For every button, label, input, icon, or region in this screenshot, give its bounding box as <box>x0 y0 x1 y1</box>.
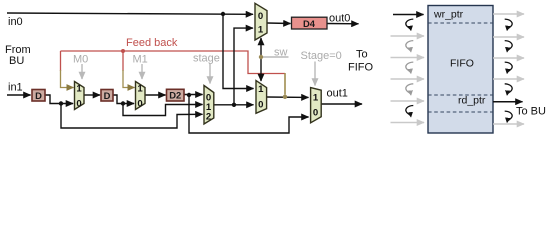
svg-text:1: 1 <box>137 84 143 95</box>
svg-text:FIFO: FIFO <box>450 58 474 70</box>
svg-text:out0: out0 <box>329 13 350 25</box>
svg-text:wr_ptr: wr_ptr <box>433 9 464 21</box>
svg-text:M0: M0 <box>73 54 88 66</box>
svg-text:BU: BU <box>9 55 24 67</box>
svg-text:To: To <box>356 49 368 61</box>
svg-text:1: 1 <box>258 25 264 36</box>
svg-text:1: 1 <box>76 84 82 95</box>
svg-text:1: 1 <box>258 84 264 95</box>
svg-text:0: 0 <box>76 99 81 110</box>
svg-text:D: D <box>35 90 42 101</box>
svg-text:To BU: To BU <box>516 106 546 118</box>
svg-text:Stage=0: Stage=0 <box>301 50 342 62</box>
svg-text:stage: stage <box>193 53 220 65</box>
svg-text:in0: in0 <box>8 16 23 28</box>
svg-text:rd_ptr: rd_ptr <box>458 95 486 107</box>
svg-text:1: 1 <box>313 93 319 104</box>
svg-text:0: 0 <box>258 11 263 22</box>
svg-text:0: 0 <box>137 99 142 110</box>
svg-text:0: 0 <box>313 108 318 119</box>
svg-text:D4: D4 <box>303 18 316 29</box>
svg-text:sw: sw <box>274 47 288 59</box>
svg-text:M1: M1 <box>133 54 148 66</box>
svg-text:0: 0 <box>258 100 263 111</box>
svg-text:D2: D2 <box>169 90 181 101</box>
svg-text:2: 2 <box>206 112 211 123</box>
svg-text:FIFO: FIFO <box>348 62 373 74</box>
svg-text:in1: in1 <box>8 82 23 94</box>
svg-text:D: D <box>104 90 111 101</box>
svg-text:Feed back: Feed back <box>126 37 178 49</box>
svg-text:out1: out1 <box>327 88 348 100</box>
